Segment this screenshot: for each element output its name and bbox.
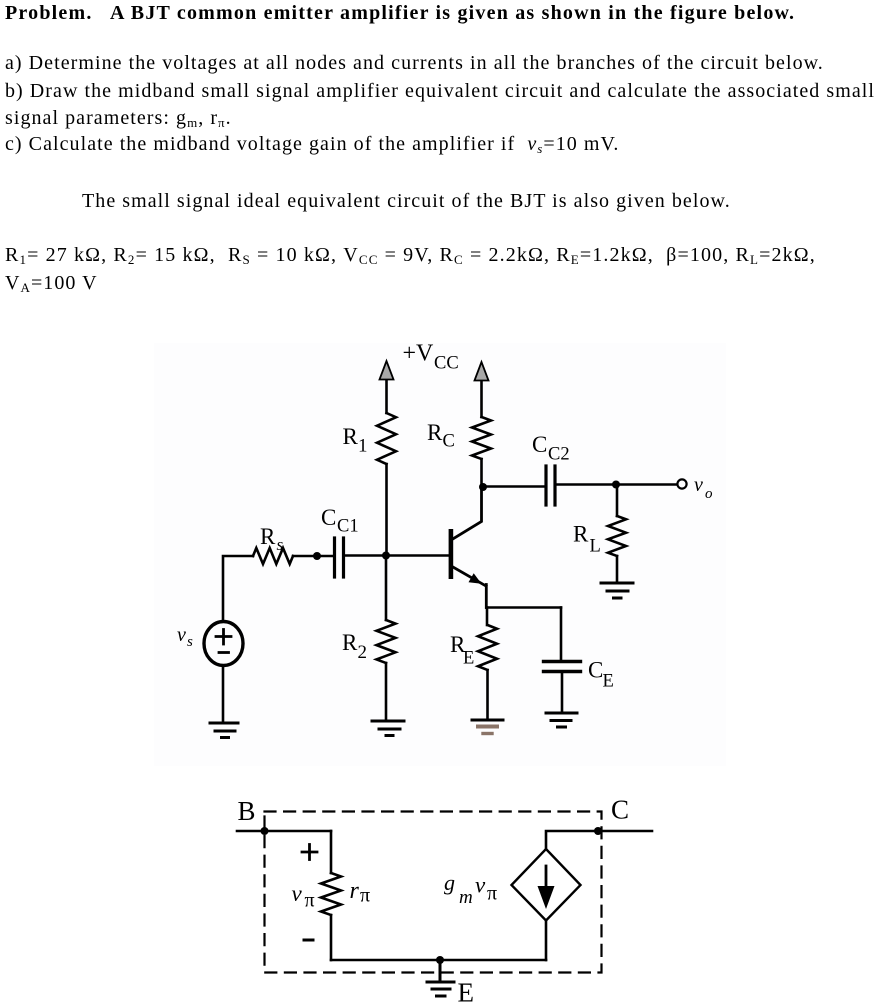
wire emitter to RE [486,608,489,626]
node Rs-CC1 junction [313,552,321,560]
resistor R1 [377,413,396,464]
wire base node to R2 [385,556,388,621]
resistor r_pi [321,873,341,915]
svg-text:v: v [292,881,303,906]
wire CE to ground [561,672,564,713]
wire vs to ground [222,666,225,723]
label plus [302,845,317,860]
wire RE to ground [486,670,489,719]
dependent source gm v_pi [512,849,581,921]
label RC [427,420,455,452]
svg-text:C2: C2 [548,445,570,465]
svg-text:R: R [343,424,359,449]
svg-text:E: E [458,978,475,1006]
label CC2 [532,432,570,465]
svg-text:v: v [177,624,186,646]
label vs [177,624,193,650]
ground (R2) [372,721,404,736]
node collector junction [479,483,487,491]
svg-text:B: B [238,796,256,826]
label CE [588,658,614,692]
resistor RC [472,417,491,459]
ground (E) [427,960,454,996]
node output junction [612,481,620,489]
wire vs to Rs [223,556,253,622]
wire emitter node to CE [486,606,561,609]
transistor Q1 [449,487,487,608]
ground (vs) [210,723,238,738]
svg-text:C: C [611,795,629,825]
svg-text:s: s [187,634,193,650]
resistor RL [608,516,626,556]
svg-text:E: E [603,672,614,692]
node base junction [382,552,390,560]
svg-text:r: r [350,878,360,904]
svg-text:v: v [475,873,486,898]
svg-text:2: 2 [358,642,368,663]
svg-text:C: C [321,505,336,530]
wire CE top [560,608,563,662]
wire R2 to ground [385,663,388,720]
svg-text:g: g [444,870,455,895]
values line 1 [5,244,816,268]
label RE [450,632,474,669]
svg-text:+V: +V [403,341,435,367]
svg-text:s: s [277,535,284,554]
capacitor CC1 [335,538,344,577]
ground (RL) [601,583,633,598]
label RL [573,522,601,557]
label minus [304,939,313,942]
svg-text:L: L [590,537,601,557]
svg-text:R: R [260,524,276,549]
label gm v_pi [444,870,497,908]
wire source top to C node [545,921,548,961]
VCC rail arrow (R1 branch) [380,361,394,413]
wire bottom rail [331,959,546,962]
paragraph b [5,80,875,102]
svg-text:o: o [705,486,713,502]
resistor R2 [377,620,396,663]
label vo [694,474,713,502]
label Rs [260,524,284,554]
svg-text:v: v [694,474,703,496]
sentence: small signal equivalent [82,190,731,212]
wire Rs to CC1 [293,555,334,558]
label +VCC [403,341,459,374]
title line [5,2,795,24]
wire B input [237,830,331,833]
svg-text:m: m [459,887,473,908]
wire CC2 to vo terminal [555,483,677,486]
label R1 [343,424,368,457]
svg-text:R: R [573,522,589,547]
capacitor CC2 [546,466,555,505]
wire RL to ground [616,556,619,582]
svg-text:C1: C1 [337,517,359,537]
resistor RE [478,625,497,670]
node E junction [436,956,444,964]
values line 2 [5,272,98,296]
wire R1 bottom to base node [385,464,388,556]
svg-text:E: E [463,649,474,669]
paragraph b line 2 [5,107,232,131]
VCC rail arrow (RC branch) [475,362,489,417]
svg-text:C: C [532,432,547,457]
capacitor CE [544,662,581,672]
node C junction [594,827,602,835]
svg-text:C: C [443,432,455,452]
terminal vo [677,479,686,488]
svg-text:π: π [487,883,497,905]
wire r_pi to bottom rail [330,915,333,960]
source vs [204,622,243,666]
resistor Rs [253,548,293,564]
paragraph c [5,133,619,157]
paragraph a [5,52,824,74]
svg-text:R: R [427,420,443,445]
wire CC1 to base [344,554,450,557]
label r_pi [350,878,371,907]
svg-text:π: π [305,890,315,912]
wire output node to RL [616,485,619,517]
label R2 [342,630,367,663]
svg-text:C: C [588,658,603,683]
ground (RE) [472,720,503,734]
svg-text:R: R [342,630,358,655]
wire source to C rail [546,831,652,849]
svg-text:CC: CC [434,354,459,374]
wire RC to collector node [480,459,483,487]
label v_pi [292,881,315,912]
label CC1 [321,505,359,537]
wire B node to r_pi [330,831,333,873]
wire collector node to CC2 [483,485,546,488]
ground (CE) [546,713,577,727]
dashed boundary box [265,812,602,973]
node B junction [261,827,269,835]
svg-text:π: π [360,885,370,907]
svg-text:1: 1 [358,436,368,457]
